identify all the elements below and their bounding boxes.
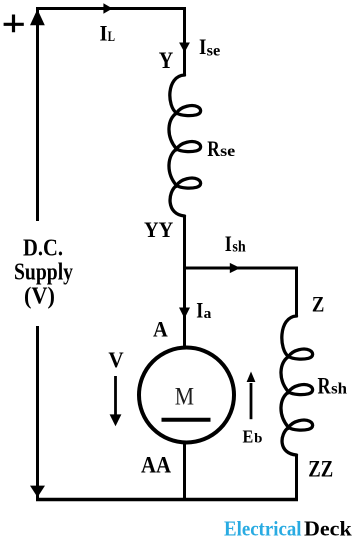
svg-text:Y: Y [159,48,174,73]
svg-text:sh: sh [232,239,246,256]
svg-text:V: V [108,347,123,372]
motor armature circle M [139,348,234,443]
svg-text:Supply: Supply [14,260,73,286]
svg-text:YY: YY [144,217,173,242]
wire left vertical lower segment [36,326,39,499]
label M inside armature [175,384,194,411]
svg-text:R: R [207,136,220,161]
wire shunt branch horizontal with I_sh [183,267,298,270]
svg-text:Z: Z [312,292,325,317]
arrow current I_sh [230,263,241,273]
label V [108,347,123,372]
arrow voltage V across motor [110,376,122,426]
arrowhead down at bottom of left supply wire [30,486,45,498]
svg-text:ZZ: ZZ [308,457,333,483]
svg-text:Deck: Deck [304,516,352,540]
wire YY to shunt junction [183,216,186,268]
label I_L [100,21,116,46]
arrow current I_a [179,308,190,319]
svg-text:D.C.: D.C. [23,236,63,262]
svg-text:se: se [207,43,221,60]
label Y terminal [159,48,174,73]
label I_sh [225,231,246,256]
svg-text:R: R [318,374,331,399]
armature brush bar symbol [162,418,211,422]
svg-text:se: se [220,143,235,160]
svg-text:sh: sh [331,381,347,398]
svg-text:M: M [175,384,194,411]
+ supply positive terminal [4,15,24,33]
svg-text:E: E [243,427,254,447]
label I_a [196,297,212,322]
label AA terminal [141,452,171,478]
arrow current I_L on top wire [103,3,112,14]
arrow back EMF E_b [247,372,256,420]
watermark Electrical Deck [224,516,352,540]
label Z terminal [312,292,325,317]
svg-text:L: L [108,29,115,45]
label E_b [243,427,263,447]
wire top horizontal (supply positive to terminal Y) [36,7,186,10]
svg-text:(V): (V) [24,284,55,310]
label ZZ terminal [308,457,333,483]
svg-text:A: A [153,317,168,342]
shunt field winding coil R_sh [281,316,313,455]
label YY terminal [144,217,173,242]
label D.C. Supply (V) [14,236,73,310]
wire bottom horizontal return [36,498,298,501]
svg-text:I: I [199,34,206,59]
wire armature bottom AA to bottom wire [183,441,186,499]
wire left vertical upper segment [36,7,39,221]
series field winding coil R_se [169,75,201,216]
wire shunt branch vertical to terminal Z [295,267,298,317]
wire junction down to armature terminal A [183,268,186,348]
svg-text:I: I [196,297,203,322]
svg-text:I: I [100,21,108,46]
label R_se [207,136,235,161]
svg-text:Electrical: Electrical [224,516,302,540]
svg-text:b: b [254,432,263,447]
arrow current I_se on series wire [179,43,190,53]
arrowhead up at top of left supply wire [30,9,45,25]
svg-text:AA: AA [141,452,171,478]
wire shunt branch vertical ZZ down to bottom wire [295,455,298,501]
svg-text:I: I [225,231,232,256]
wire series branch vertical down to terminal Y [183,7,186,75]
label R_sh [318,374,348,399]
label A terminal [153,317,168,342]
svg-text:a: a [204,306,212,322]
label I_se [199,34,220,60]
